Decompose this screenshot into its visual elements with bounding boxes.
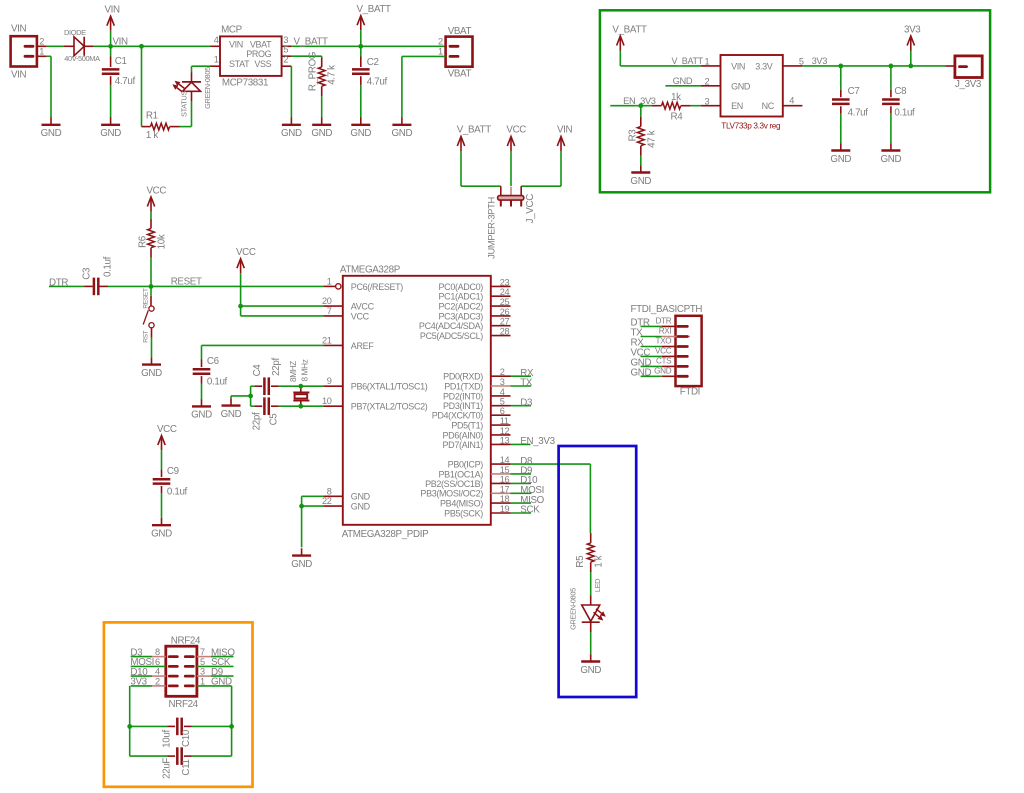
svg-text:GND: GND — [881, 154, 902, 165]
svg-text:VIN: VIN — [11, 24, 27, 35]
connector VBAT J2 — [438, 26, 473, 79]
svg-text:SCK: SCK — [520, 505, 540, 516]
svg-text:GND: GND — [281, 128, 302, 139]
wire diode to MCP pin4 (VIN net) — [94, 45, 211, 47]
svg-text:PD2(INT0): PD2(INT0) — [443, 391, 483, 401]
svg-text:22pf: 22pf — [271, 358, 282, 376]
wire VBAT pin1 to ground — [402, 56, 446, 117]
svg-text:V_BATT: V_BATT — [672, 56, 704, 66]
svg-text:PB3(MOSI/OC2): PB3(MOSI/OC2) — [420, 489, 483, 499]
wire EN_3V3 to R4 — [610, 96, 656, 106]
svg-text:PC6(/RESET): PC6(/RESET) — [351, 282, 404, 292]
svg-text:19: 19 — [500, 504, 510, 514]
svg-text:VCC: VCC — [147, 185, 167, 196]
svg-text:2: 2 — [705, 76, 710, 86]
svg-text:4.7 k: 4.7 k — [326, 65, 337, 85]
node crystal top junction — [298, 384, 303, 389]
pin 4 PD2(INT0) — [443, 387, 510, 401]
svg-text:5: 5 — [500, 397, 505, 407]
svg-text:AREF: AREF — [351, 341, 374, 351]
capacitor C1 4.7uf — [102, 46, 136, 117]
pin 2 PD0(RXD) — [443, 367, 510, 381]
svg-text:GND: GND — [392, 128, 413, 139]
pin VCC FTDI row 4 — [631, 347, 688, 359]
capacitor C3 0.1uf — [82, 256, 114, 295]
pin 5 stub TLV — [783, 56, 804, 66]
capacitor C9 0.1uf — [153, 466, 188, 518]
supply VCC arrow (AVCC) — [236, 247, 256, 306]
svg-text:4: 4 — [214, 35, 219, 45]
svg-text:DTR: DTR — [656, 317, 672, 326]
pin 19 PB5(SCK) — [444, 504, 510, 518]
pin 1 STAT stub — [211, 55, 221, 66]
svg-text:V_BATT: V_BATT — [357, 4, 392, 15]
svg-text:VIN: VIN — [731, 62, 745, 72]
svg-text:9: 9 — [327, 376, 332, 386]
ground GND (C6) — [191, 399, 212, 421]
pin 24 PC1(ADC1) — [439, 287, 511, 301]
jumper J_VCC JUMPER-3PTH — [485, 186, 536, 259]
svg-text:J_3V3: J_3V3 — [955, 79, 982, 90]
wire net MOSI — [511, 485, 544, 496]
ground GND (reset switch) — [141, 357, 162, 379]
supply VCC arrow (jumper) — [506, 125, 526, 187]
wire VCC to VCC pin7 — [241, 306, 324, 316]
svg-text:3: 3 — [705, 96, 710, 106]
wire GND rail right vertical — [231, 686, 233, 756]
svg-text:GREEN-0805: GREEN-0805 — [569, 588, 578, 630]
pin 4 VIN stub — [211, 35, 221, 47]
svg-text:47 k: 47 k — [647, 130, 658, 148]
svg-text:VIN: VIN — [229, 39, 243, 49]
svg-text:26: 26 — [500, 307, 510, 317]
capacitor C5 22pf — [251, 397, 280, 430]
svg-text:3V3: 3V3 — [904, 24, 921, 35]
ground GND (MCP VSS) — [281, 118, 302, 140]
IC U1 MCP73831 charger — [220, 25, 282, 89]
svg-text:RESET: RESET — [143, 288, 150, 309]
svg-text:PB4(MISO): PB4(MISO) — [440, 499, 483, 509]
svg-text:J_VCC: J_VCC — [525, 194, 536, 224]
svg-text:PB5(SCK): PB5(SCK) — [444, 508, 483, 518]
svg-text:V_BATT: V_BATT — [612, 24, 647, 35]
pin 15 PB1(OC1A) — [439, 465, 511, 479]
pin 3 NRF24 right (D9) — [185, 667, 233, 678]
supply 3V3 arrow — [904, 24, 921, 66]
pin 13 PD7(AIN1) — [443, 435, 511, 449]
pin 23 PC0(ADC0) — [439, 277, 511, 291]
resistor R_PROG 4.7 k — [307, 52, 337, 96]
svg-text:FTDI: FTDI — [680, 387, 700, 398]
svg-text:TXO: TXO — [656, 337, 672, 346]
svg-text:1: 1 — [705, 56, 710, 66]
svg-text:40V-500MA: 40V-500MA — [64, 54, 100, 63]
svg-text:GND: GND — [350, 128, 371, 139]
svg-text:GND: GND — [291, 559, 312, 570]
pin 27 PC4(ADC4/SDA) — [419, 317, 511, 331]
wire R4 to TLV pin3 — [691, 105, 701, 107]
svg-text:21: 21 — [322, 335, 332, 345]
IC U3 ATMEGA328P — [340, 265, 491, 540]
pin CTS FTDI row 5 — [631, 357, 688, 369]
connector J4 NRF24 — [166, 636, 201, 710]
pin 1 stub TLV — [701, 56, 721, 66]
svg-text:GND: GND — [830, 154, 851, 165]
svg-text:PD6(AIN0): PD6(AIN0) — [443, 430, 484, 440]
svg-text:23: 23 — [500, 277, 510, 287]
supply V_BATT arrow (regulator) — [612, 24, 647, 66]
pin 11 PD5(T1) — [451, 416, 510, 430]
node C10 left junction — [127, 724, 132, 729]
resistor R3 47 k — [628, 106, 658, 166]
svg-text:GREEN-0805: GREEN-0805 — [203, 67, 212, 109]
svg-text:GND: GND — [580, 665, 601, 676]
ground GND (ATMEGA) — [291, 548, 312, 570]
svg-text:15: 15 — [500, 465, 510, 475]
crystal Y1 8MHz — [289, 359, 310, 406]
node R1 branch junction — [139, 44, 144, 49]
svg-text:VBAT: VBAT — [448, 26, 472, 37]
resistor R5 1 k — [575, 533, 605, 572]
svg-text:1: 1 — [39, 46, 44, 56]
svg-text:3: 3 — [200, 667, 205, 677]
node crystal bottom junction — [298, 404, 303, 409]
svg-text:PD1(TXD): PD1(TXD) — [444, 381, 483, 391]
svg-text:PD7(AIN1): PD7(AIN1) — [443, 440, 484, 450]
svg-text:PC3(ADC3): PC3(ADC3) — [439, 311, 484, 321]
svg-text:GND: GND — [151, 529, 172, 540]
ground GND (crystal caps) — [221, 396, 251, 420]
wire D8 down to R5 — [589, 464, 591, 533]
svg-text:VIN: VIN — [105, 5, 121, 16]
svg-text:5: 5 — [200, 657, 205, 667]
svg-text:2: 2 — [438, 36, 443, 46]
svg-text:PB6(XTAL1/TOSC1): PB6(XTAL1/TOSC1) — [351, 382, 428, 392]
node AVCC junction — [238, 304, 243, 309]
svg-text:4.7uf: 4.7uf — [848, 107, 869, 118]
svg-text:ATMEGA328P_PDIP: ATMEGA328P_PDIP — [342, 529, 429, 540]
ground GND (C2) — [350, 118, 371, 140]
pin 17 PB3(MOSI/OC2) — [420, 484, 510, 498]
svg-text:EN_3V3: EN_3V3 — [520, 436, 555, 447]
wire net D8 — [511, 456, 591, 467]
svg-text:PB0(ICP): PB0(ICP) — [448, 460, 484, 470]
svg-text:GND: GND — [100, 128, 121, 139]
node C10 right junction — [229, 724, 234, 729]
svg-text:4: 4 — [789, 95, 794, 105]
svg-text:7: 7 — [200, 647, 205, 657]
svg-text:VCC: VCC — [506, 125, 526, 136]
svg-text:13: 13 — [500, 435, 510, 445]
node RESET junction — [149, 284, 154, 289]
pin 5 PROG stub — [282, 45, 292, 57]
svg-text:16: 16 — [500, 474, 510, 484]
svg-text:11: 11 — [500, 416, 509, 426]
svg-text:LED: LED — [593, 579, 602, 592]
pin TXO FTDI row 3 — [631, 337, 688, 349]
svg-text:2: 2 — [39, 36, 44, 46]
svg-text:10: 10 — [322, 396, 332, 406]
svg-text:10uf: 10uf — [162, 730, 173, 748]
diode D1 40V-500MA — [64, 28, 100, 63]
svg-text:22pf: 22pf — [251, 412, 262, 430]
pin 8 GND — [323, 486, 370, 501]
wire VIN pin2 to diode — [38, 45, 64, 47]
svg-text:PB2(SS/OC1B): PB2(SS/OC1B) — [425, 479, 483, 489]
radio section frame (orange box) — [104, 622, 253, 786]
node EN junction — [638, 103, 643, 108]
wire net D9 — [511, 466, 533, 477]
wire LED cathode to MCP STAT pin1 — [192, 66, 211, 72]
connector J3 FTDI_BASICPTH — [631, 304, 703, 398]
svg-text:PD0(RXD): PD0(RXD) — [443, 372, 483, 382]
svg-text:8: 8 — [155, 647, 160, 657]
svg-text:C11: C11 — [181, 759, 192, 775]
svg-text:VBAT: VBAT — [448, 69, 472, 80]
svg-text:8MHZ: 8MHZ — [289, 361, 298, 382]
svg-text:C10: C10 — [181, 729, 192, 747]
pin 18 PB4(MISO) — [440, 494, 510, 508]
pin 9 PB6(XTAL1/TOSC1) — [323, 376, 428, 391]
status LED frame (blue box) — [559, 446, 637, 697]
svg-text:1: 1 — [214, 55, 219, 65]
wire RESET net C3 to ATMEGA pin1 — [108, 277, 323, 288]
svg-text:GND: GND — [351, 492, 371, 502]
supply VIN arrow — [105, 5, 121, 47]
svg-text:3.3V: 3.3V — [755, 62, 772, 72]
LED STATUS GREEN-0805 — [172, 67, 212, 117]
svg-text:1: 1 — [200, 677, 205, 687]
ground GND (C1) — [100, 118, 121, 140]
ground GND (R3) — [630, 165, 651, 187]
capacitor C11 22uF — [130, 747, 232, 779]
svg-text:2: 2 — [155, 677, 160, 687]
svg-text:2: 2 — [283, 55, 288, 65]
pin 28 PC5(ADC5/SCL) — [420, 327, 511, 341]
node caps-gnd junction — [248, 394, 253, 399]
pin 7 NRF24 right (MISO) — [185, 647, 235, 658]
svg-text:1: 1 — [438, 46, 443, 56]
capacitor C7 4.7uf — [832, 66, 868, 143]
svg-text:EN: EN — [731, 101, 743, 111]
wire 3V3 net TLV pin5 to J_3V3 — [802, 56, 945, 66]
svg-text:PB7(XTAL2/TOSC2): PB7(XTAL2/TOSC2) — [351, 402, 428, 412]
pin 3 VBAT stub — [282, 35, 292, 47]
svg-text:MCP73831: MCP73831 — [222, 78, 268, 89]
wire net RX — [511, 368, 535, 379]
svg-text:JUMPER-3PTH: JUMPER-3PTH — [485, 197, 496, 259]
svg-text:0.1uf: 0.1uf — [894, 107, 915, 118]
wire 3V3 rail left vertical — [129, 686, 131, 756]
wire VCC to AVCC pin20 — [241, 305, 324, 307]
svg-text:VIN: VIN — [113, 36, 129, 47]
svg-text:5: 5 — [799, 56, 804, 66]
pin GND FTDI row 6 — [631, 366, 688, 378]
wire R_PROG to ground — [321, 96, 323, 117]
supply V_BATT arrow (jumper) — [457, 125, 492, 187]
wire MCP pin2 VSS to ground — [290, 66, 292, 117]
svg-text:GND: GND — [311, 128, 332, 139]
svg-text:3V3: 3V3 — [812, 56, 828, 66]
ground GND (VIN pin1) — [41, 118, 62, 140]
svg-text:22: 22 — [322, 496, 332, 506]
wire net TX — [511, 378, 533, 389]
svg-text:5: 5 — [283, 45, 288, 55]
svg-text:22uF: 22uF — [162, 758, 173, 779]
pin 1 NRF24 right (GND) — [185, 677, 232, 688]
svg-text:GND: GND — [631, 367, 652, 378]
svg-text:1: 1 — [327, 276, 332, 286]
svg-text:8: 8 — [327, 486, 332, 496]
svg-text:DIODE: DIODE — [64, 28, 86, 37]
svg-text:R1: R1 — [146, 111, 158, 122]
svg-text:PC1(ADC1): PC1(ADC1) — [439, 292, 484, 302]
wire C4 to ATMEGA pin9 (XTAL1) — [279, 385, 324, 387]
wire R6 to RESET node — [150, 258, 152, 287]
pin 3 stub TLV — [701, 96, 721, 106]
wire R5 to LED — [591, 572, 602, 595]
supply VCC arrow (C9) — [157, 424, 177, 470]
svg-text:V_BATT: V_BATT — [294, 36, 329, 47]
svg-text:2: 2 — [500, 367, 505, 377]
svg-text:1 k: 1 k — [593, 555, 604, 567]
supply V_BATT arrow — [357, 4, 392, 46]
node VIN junction — [108, 36, 128, 48]
pin 26 PC3(ADC3) — [439, 307, 511, 321]
svg-text:FTDI_BASICPTH: FTDI_BASICPTH — [631, 304, 703, 315]
capacitor C10 10uf — [130, 718, 232, 748]
resistor R1 1 k — [142, 111, 180, 141]
svg-text:NC: NC — [762, 101, 775, 111]
wire LED to ground — [590, 632, 592, 654]
pin 10 PB7(XTAL2/TOSC2) — [322, 396, 428, 411]
supply VCC arrow (R6) — [147, 185, 167, 218]
svg-text:4.7uf: 4.7uf — [367, 77, 388, 88]
svg-text:C8: C8 — [894, 86, 907, 97]
svg-text:0.1uf: 0.1uf — [207, 377, 228, 388]
wire net D10 — [511, 475, 539, 486]
resistor R4 1k — [652, 92, 691, 122]
svg-text:PC0(ADC0): PC0(ADC0) — [439, 282, 484, 292]
capacitor C4 22pf — [251, 358, 282, 395]
svg-text:VIN: VIN — [11, 70, 27, 81]
wire V_BATT net MCP pin3 to VBAT connector — [291, 36, 445, 47]
svg-text:PD5(T1): PD5(T1) — [451, 421, 483, 431]
svg-text:R6: R6 — [137, 235, 148, 248]
svg-text:V_BATT: V_BATT — [457, 125, 492, 136]
svg-text:RST: RST — [143, 330, 150, 342]
svg-text:STAT: STAT — [229, 59, 250, 69]
svg-text:PD3(INT1): PD3(INT1) — [443, 401, 483, 411]
svg-text:TX: TX — [520, 378, 533, 389]
wire C5 to ATMEGA pin10 (XTAL2) — [279, 405, 324, 407]
pin 4 stub TLV — [783, 95, 803, 105]
svg-text:GND: GND — [630, 176, 651, 187]
svg-text:0.1uf: 0.1uf — [167, 487, 188, 498]
svg-text:VCC: VCC — [157, 424, 177, 435]
wire GND label to TLV pin2 — [665, 76, 701, 86]
svg-text:R4: R4 — [671, 112, 684, 123]
svg-text:NRF24: NRF24 — [169, 699, 199, 710]
resistor R6 10k — [137, 219, 167, 258]
svg-text:GND: GND — [731, 81, 751, 91]
svg-text:1 k: 1 k — [146, 130, 158, 141]
svg-text:17: 17 — [500, 484, 510, 494]
svg-text:28: 28 — [500, 327, 510, 337]
pin RXI FTDI row 2 — [631, 327, 691, 339]
svg-text:GND: GND — [654, 366, 672, 375]
pin 7 VCC — [323, 306, 369, 321]
pin 3 PD1(TXD) — [444, 377, 510, 391]
svg-text:R3: R3 — [628, 129, 639, 142]
pin 6 NRF24 left (MOSI) — [130, 657, 177, 668]
pin 21 AREF — [322, 335, 374, 350]
capacitor C8 0.1uf — [882, 66, 915, 143]
svg-text:C5: C5 — [269, 413, 280, 426]
pin 8 NRF24 left (D3) — [130, 647, 177, 658]
svg-text:3: 3 — [283, 35, 288, 45]
ground GND (LED) — [580, 654, 601, 676]
wire net SCK — [511, 505, 541, 516]
svg-text:PC4(ADC4/SDA): PC4(ADC4/SDA) — [419, 321, 483, 331]
svg-text:7: 7 — [327, 306, 332, 316]
wire ATMEGA GND pins to ground — [302, 496, 324, 547]
svg-text:VBAT: VBAT — [250, 39, 272, 49]
LED D2 GREEN-0805 — [569, 588, 606, 632]
svg-text:STATUS: STATUS — [179, 91, 188, 117]
svg-text:10k: 10k — [156, 234, 167, 249]
pin DTR FTDI row 1 — [631, 317, 688, 329]
svg-text:4.7uf: 4.7uf — [115, 76, 136, 87]
wire DTR to C3 — [49, 277, 84, 288]
node 3V3 arrow junction — [908, 64, 913, 69]
pin 20 AVCC — [322, 296, 375, 311]
svg-text:PC5(ADC5/SCL): PC5(ADC5/SCL) — [420, 331, 483, 341]
wire net D3 — [511, 397, 534, 408]
svg-text:GND: GND — [673, 76, 693, 86]
power section frame (green box) — [600, 10, 990, 192]
switch RESET pushbutton — [143, 286, 155, 357]
svg-text:PD4(XCK/T0): PD4(XCK/T0) — [432, 411, 484, 421]
svg-text:6: 6 — [500, 406, 505, 416]
wire VIN junction down to R1 — [141, 46, 143, 126]
wire V_BATT to TLV pin1 — [620, 56, 703, 66]
wire crystal caps left bus — [250, 386, 252, 406]
pin 4 NRF24 left (D10) — [130, 667, 177, 678]
connector J_3V3 — [945, 56, 982, 90]
capacitor C6 0.1uf — [193, 345, 324, 399]
pin 1 PC6(/RESET) — [323, 276, 403, 291]
svg-text:C6: C6 — [207, 356, 220, 367]
svg-text:MCP: MCP — [221, 25, 243, 36]
svg-text:PROG: PROG — [246, 49, 271, 59]
svg-text:C1: C1 — [115, 56, 127, 67]
svg-text:14: 14 — [500, 455, 510, 465]
svg-text:PB1(OC1A): PB1(OC1A) — [439, 469, 484, 479]
svg-text:6: 6 — [155, 657, 160, 667]
svg-text:VIN: VIN — [557, 125, 573, 136]
pin 2 stub TLV — [701, 76, 721, 86]
node C8 junction — [889, 64, 894, 69]
svg-text:20: 20 — [322, 296, 332, 306]
pin 25 PC2(ADC2) — [439, 297, 511, 311]
svg-text:GND: GND — [221, 409, 242, 420]
pin 5 NRF24 right (SCK) — [185, 657, 233, 668]
svg-text:C2: C2 — [367, 57, 379, 68]
regulator U2 TLV733p — [721, 55, 783, 131]
node C7 junction — [838, 64, 843, 69]
ground GND (C8) — [881, 143, 902, 165]
